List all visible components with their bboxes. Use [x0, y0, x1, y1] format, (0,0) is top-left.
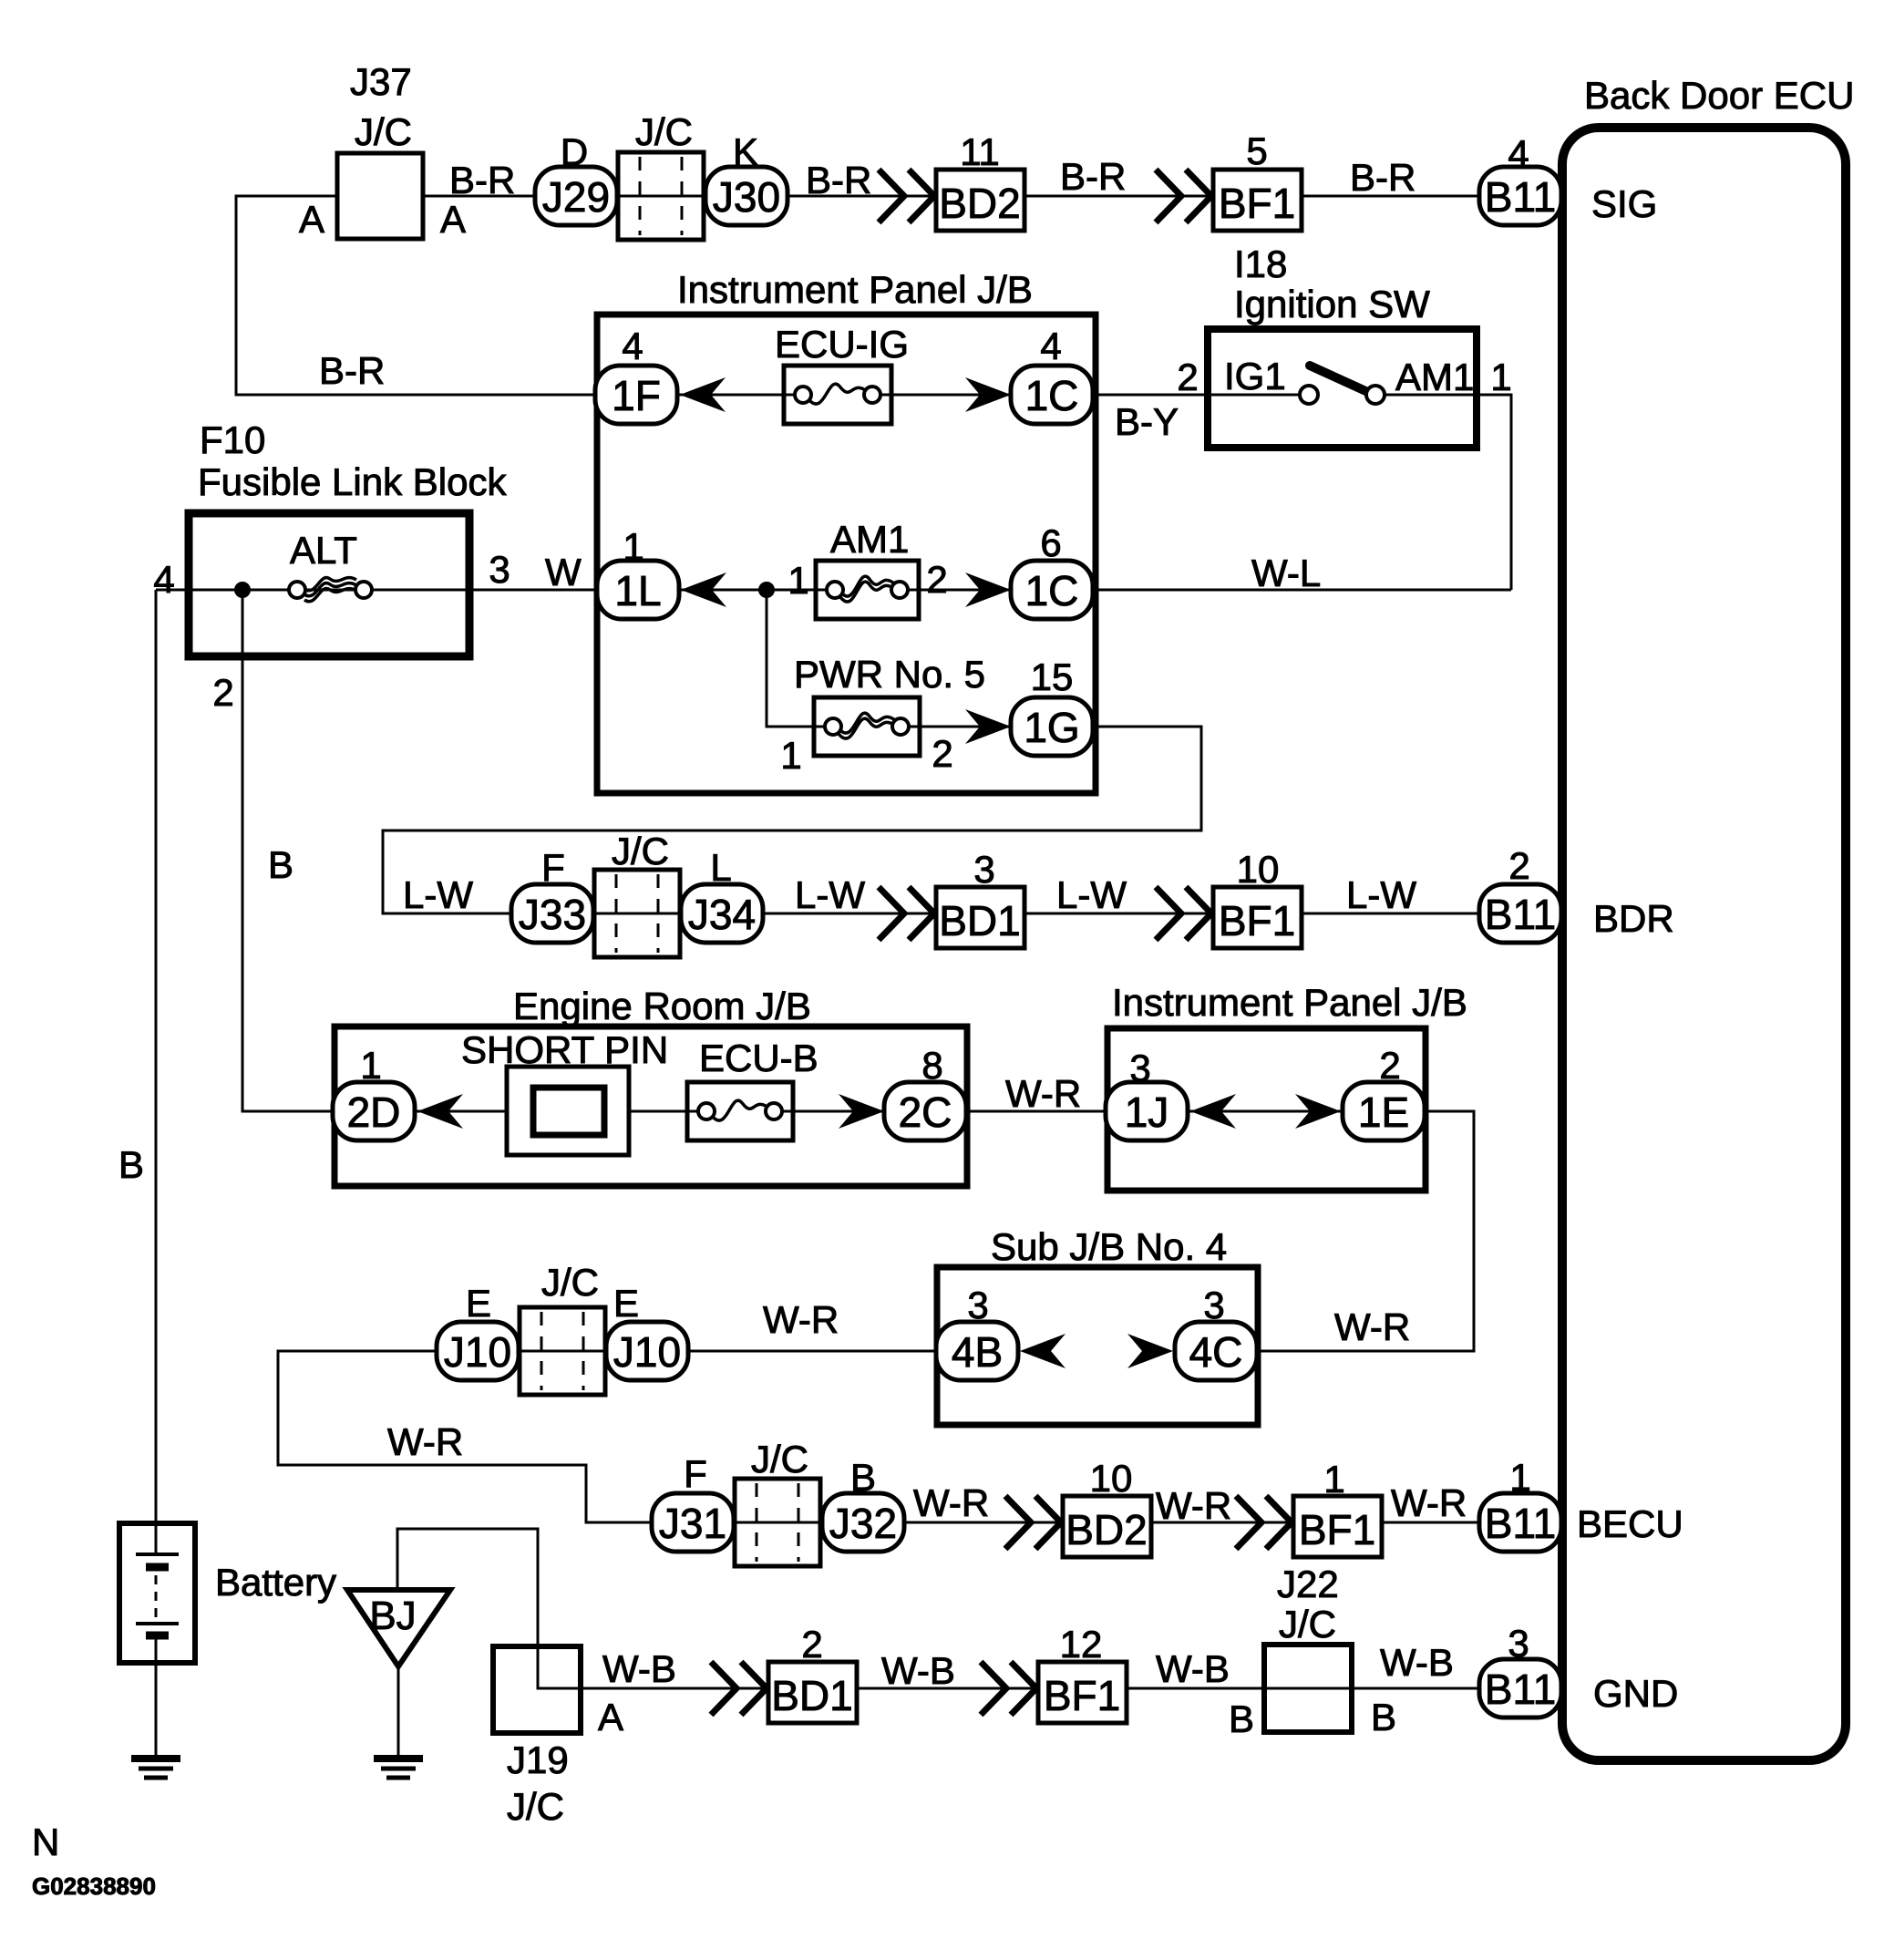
svg-text:F: F	[684, 1452, 707, 1495]
pin label F	[541, 846, 565, 889]
pin 1 of PWR fuse	[780, 734, 801, 777]
label J/C of J29/J30	[635, 110, 693, 153]
svg-text:B11: B11	[1485, 173, 1556, 221]
junction connector J/C box J10	[520, 1307, 605, 1395]
svg-text:1: 1	[1490, 356, 1511, 398]
svg-text:W-R: W-R	[763, 1298, 839, 1341]
battery plate long top	[136, 1553, 179, 1556]
wire label W-R	[1334, 1305, 1410, 1348]
connector 2C	[884, 1082, 966, 1140]
wire B from F10 pin 2 to 2D	[242, 590, 335, 1111]
fuse ECU-IG	[784, 366, 891, 424]
svg-text:2: 2	[1508, 844, 1529, 887]
pin name BECU	[1577, 1502, 1683, 1545]
svg-text:W-R: W-R	[1156, 1484, 1231, 1527]
svg-text:I18: I18	[1234, 242, 1287, 285]
svg-text:B: B	[268, 843, 293, 886]
fuse ECU-B	[687, 1082, 793, 1140]
svg-text:E: E	[613, 1282, 639, 1325]
label J/C of J33/J34	[612, 830, 669, 872]
label J/C of J10	[541, 1261, 599, 1304]
svg-text:3: 3	[1129, 1047, 1150, 1089]
connector B11 pin 4 SIG	[1479, 167, 1561, 225]
svg-text:2: 2	[212, 671, 233, 714]
wire label W	[545, 551, 582, 593]
svg-text:15: 15	[1031, 655, 1074, 698]
svg-text:2: 2	[926, 558, 947, 601]
junction connector J/C box J31/J32	[735, 1479, 820, 1566]
junction connector J22 box	[1264, 1645, 1352, 1732]
label Engine Room J/B	[513, 985, 811, 1027]
wire B battery feed	[155, 590, 158, 1554]
pin label B right	[1371, 1696, 1396, 1738]
wire battery positive to BJ and J19	[397, 1529, 581, 1688]
instrument panel J/B box 2	[1107, 1028, 1426, 1191]
svg-text:B: B	[118, 1143, 144, 1186]
connector 4B	[936, 1322, 1018, 1380]
pin 1	[360, 1044, 381, 1087]
pin 1	[1509, 1456, 1530, 1499]
arrow into 4C	[1127, 1334, 1173, 1368]
wire label B-R	[1060, 155, 1126, 198]
pin 4 of F10	[153, 558, 174, 601]
svg-text:J32: J32	[829, 1500, 897, 1547]
svg-text:J/C: J/C	[355, 110, 412, 153]
inline connector BD2	[936, 170, 1024, 231]
wire label W-B	[1156, 1647, 1230, 1690]
pin 2	[1508, 844, 1529, 887]
wire W-R 4B to J10	[686, 1350, 938, 1353]
wire label L-W	[403, 873, 473, 916]
wire ignition AM1 to pin 1	[1382, 395, 1511, 590]
svg-text:6: 6	[1040, 521, 1061, 564]
connector B11 pin 3 GND	[1479, 1659, 1561, 1718]
svg-text:Instrument Panel J/B: Instrument Panel J/B	[1112, 981, 1467, 1024]
battery box	[119, 1523, 195, 1663]
pin 1	[623, 525, 643, 568]
connector 1G	[1011, 697, 1093, 756]
label AM1	[1395, 356, 1474, 398]
svg-text:Fusible Link Block: Fusible Link Block	[198, 460, 507, 503]
wire label B-R	[806, 159, 871, 201]
arrow into 4B	[1020, 1334, 1066, 1368]
pin 3	[1129, 1047, 1150, 1089]
svg-text:W-R: W-R	[1391, 1481, 1467, 1524]
label Battery	[215, 1561, 336, 1604]
label Instrument Panel J/B 2	[1112, 981, 1467, 1024]
wire branch to PWR No.5 fuse	[767, 590, 814, 727]
wire B-Y 1C to ignition IG1	[1091, 394, 1303, 397]
connector J33	[511, 884, 593, 943]
wire W-R 2C to 1J	[964, 1110, 1109, 1113]
junction connector J/C box J33/J34	[594, 870, 680, 957]
pin 2	[1177, 356, 1198, 398]
wire W-L 1C to ignition SW	[1091, 589, 1511, 592]
fusible link ALT	[289, 578, 372, 602]
svg-text:W-R: W-R	[1005, 1072, 1081, 1115]
svg-text:3: 3	[967, 1284, 988, 1326]
wire label B	[268, 843, 293, 886]
svg-text:N: N	[32, 1821, 59, 1863]
wire label W-L	[1251, 552, 1321, 594]
svg-text:BD2: BD2	[1066, 1506, 1147, 1553]
connector 4C	[1175, 1322, 1257, 1380]
pin name GND	[1593, 1672, 1678, 1715]
svg-text:J/C: J/C	[751, 1438, 808, 1480]
pin label L	[710, 846, 731, 889]
svg-text:B-R: B-R	[449, 159, 515, 201]
pin 1	[1490, 356, 1511, 398]
junction connector J/C box J29/J30	[618, 152, 704, 240]
label Ignition SW	[1234, 283, 1430, 325]
connector J31	[652, 1493, 734, 1552]
label J/C of J37	[355, 110, 412, 153]
inline connector arrows to BF1	[1156, 170, 1211, 222]
svg-text:GND: GND	[1593, 1672, 1678, 1715]
svg-text:Ignition SW: Ignition SW	[1234, 283, 1430, 325]
svg-text:2: 2	[1379, 1044, 1400, 1087]
svg-text:W-B: W-B	[602, 1647, 676, 1690]
svg-text:1C: 1C	[1025, 567, 1079, 614]
connector 1C row2	[1011, 561, 1093, 619]
svg-text:L-W: L-W	[1346, 873, 1416, 916]
inline connector BD1	[936, 887, 1024, 948]
svg-text:1J: 1J	[1125, 1088, 1169, 1136]
svg-text:J31: J31	[659, 1500, 726, 1547]
wire 2D to SHORT PIN	[413, 1110, 507, 1113]
svg-text:1L: 1L	[614, 567, 661, 614]
svg-text:BECU: BECU	[1577, 1502, 1683, 1545]
svg-text:B11: B11	[1485, 1500, 1556, 1547]
connector J34	[681, 884, 763, 943]
note N	[32, 1821, 59, 1863]
inline connector arrows to BF1 GND	[981, 1662, 1036, 1715]
pin label E left	[466, 1282, 491, 1325]
svg-text:4: 4	[622, 325, 643, 367]
label F10	[200, 418, 265, 461]
wire W-R BF1 to B11 BECU	[1381, 1522, 1481, 1524]
svg-text:BF1: BF1	[1299, 1506, 1375, 1553]
svg-text:1F: 1F	[612, 372, 661, 419]
svg-text:2: 2	[932, 732, 952, 775]
svg-text:B: B	[1371, 1696, 1396, 1738]
svg-text:E: E	[466, 1282, 491, 1325]
wire 1J to 1E	[1186, 1110, 1344, 1113]
inline connector BF1 BECU	[1293, 1496, 1382, 1557]
pin 1	[1323, 1458, 1344, 1501]
ignition switch I18 box	[1208, 329, 1477, 448]
svg-text:F10: F10	[200, 418, 265, 461]
pin 3	[1203, 1284, 1224, 1326]
wire W-B BD1 to BF1	[857, 1687, 1038, 1690]
wire B-R J30 to BD2	[786, 195, 936, 198]
arrow into 1J	[1190, 1094, 1236, 1129]
pin label D	[561, 130, 588, 173]
svg-text:PWR No. 5: PWR No. 5	[794, 653, 985, 696]
wire BJ to ground	[397, 1665, 400, 1759]
svg-text:10: 10	[1237, 848, 1280, 891]
svg-text:2C: 2C	[899, 1088, 952, 1136]
figure number G02838890	[32, 1872, 156, 1900]
connector 1C	[1011, 366, 1093, 424]
svg-text:2: 2	[801, 1623, 822, 1666]
svg-text:11: 11	[960, 130, 1000, 173]
pin 4	[622, 325, 643, 367]
label SHORT PIN	[461, 1028, 668, 1071]
instrument panel J/B box	[597, 315, 1096, 793]
wire B-R BD2 to BF1	[1024, 195, 1213, 198]
label Sub J/B No. 4	[991, 1225, 1227, 1268]
svg-text:3: 3	[1508, 1622, 1529, 1665]
connector 1F	[595, 366, 677, 424]
wire B-R from J37 pin A to 1F	[236, 196, 597, 395]
wire battery to ground	[155, 1635, 158, 1759]
pin label F	[684, 1452, 707, 1495]
pin 8	[921, 1044, 942, 1087]
pin label E right	[613, 1282, 639, 1325]
svg-text:BDR: BDR	[1593, 897, 1674, 940]
pin 4	[1040, 325, 1061, 367]
svg-text:1E: 1E	[1358, 1088, 1409, 1136]
svg-text:BJ: BJ	[369, 1594, 416, 1638]
svg-text:J19: J19	[507, 1738, 569, 1781]
svg-text:SHORT PIN: SHORT PIN	[461, 1028, 668, 1071]
wire label W-R	[387, 1420, 463, 1463]
svg-text:1: 1	[780, 734, 801, 777]
body junction BJ triangle	[347, 1590, 450, 1666]
arrow into 1G	[965, 709, 1011, 744]
pin 10	[1237, 848, 1280, 891]
label PWR No. 5	[794, 653, 985, 696]
svg-text:IG1: IG1	[1224, 355, 1286, 397]
wire ECU-B fuse to 2C	[793, 1110, 886, 1113]
svg-text:J30: J30	[713, 173, 780, 221]
inline connector arrows to BD1	[879, 887, 934, 940]
pin name BDR	[1593, 897, 1674, 940]
junction connector J19 box	[493, 1646, 581, 1733]
ground battery	[131, 1759, 180, 1778]
svg-text:ECU-B: ECU-B	[699, 1037, 818, 1079]
svg-text:SIG: SIG	[1591, 182, 1657, 225]
svg-text:L-W: L-W	[1056, 873, 1127, 916]
wire label W-B	[602, 1647, 676, 1690]
connector J30	[705, 167, 788, 225]
battery plate short bottom	[146, 1632, 169, 1640]
connector J10 left	[437, 1322, 519, 1380]
label J19	[507, 1738, 569, 1781]
label J/C of J19	[507, 1785, 564, 1828]
arrow into 1E	[1295, 1094, 1341, 1129]
pin 2 of PWR fuse	[932, 732, 952, 775]
connector J29	[535, 167, 617, 225]
svg-text:1: 1	[360, 1044, 381, 1087]
junction dot AM1 branch	[758, 582, 775, 598]
wire W-B BF1 to J22 to B11 GND	[1127, 1687, 1481, 1690]
wire through J/C J33/J34	[592, 913, 682, 915]
svg-text:8: 8	[921, 1044, 942, 1087]
pin 2	[801, 1623, 822, 1666]
wire label L-W	[1346, 873, 1416, 916]
svg-text:B11: B11	[1485, 1666, 1556, 1713]
wire label B-R	[1350, 156, 1416, 199]
svg-text:L-W: L-W	[795, 873, 865, 916]
sub J/B No.4 box	[937, 1267, 1258, 1425]
svg-text:G02838890: G02838890	[32, 1872, 156, 1900]
svg-text:W-B: W-B	[1380, 1641, 1454, 1684]
svg-text:1G: 1G	[1024, 704, 1079, 751]
wire label W-B	[881, 1649, 955, 1692]
svg-text:1C: 1C	[1025, 372, 1079, 419]
svg-text:3: 3	[1203, 1284, 1224, 1326]
svg-text:10: 10	[1090, 1457, 1133, 1500]
svg-text:F: F	[541, 846, 565, 889]
svg-text:J/C: J/C	[541, 1261, 599, 1304]
pin 4	[1508, 132, 1529, 175]
svg-text:J29: J29	[542, 173, 610, 221]
svg-text:AM1: AM1	[1395, 356, 1474, 398]
pin 10	[1090, 1457, 1133, 1500]
inline connector arrows to BD1 GND	[711, 1662, 767, 1715]
pin label A	[598, 1696, 623, 1738]
label ECU-IG	[775, 323, 909, 366]
svg-text:ECU-IG: ECU-IG	[775, 323, 909, 366]
wire through J/C J10	[517, 1350, 608, 1353]
svg-text:3: 3	[489, 548, 510, 591]
pin 3	[1508, 1622, 1529, 1665]
svg-text:J/C: J/C	[507, 1785, 564, 1828]
wire label W-R	[1005, 1072, 1081, 1115]
wire B-R J37 to J29	[423, 195, 537, 198]
arrow into 1C	[965, 573, 1011, 607]
wire AM1 fuse to 1C	[919, 589, 1013, 592]
connector J32	[822, 1493, 904, 1552]
wire label B left	[118, 1143, 144, 1186]
wire label L-W	[1056, 873, 1127, 916]
wire W-R BD2 to BF1	[1151, 1522, 1293, 1524]
connector 1L	[597, 561, 679, 619]
pin label B left	[1229, 1697, 1254, 1740]
svg-text:J22: J22	[1277, 1563, 1339, 1605]
engine room J/B box	[335, 1026, 967, 1186]
pin label K	[733, 130, 758, 173]
svg-text:2: 2	[1177, 356, 1198, 398]
label 2 below F10	[212, 671, 233, 714]
wire 1F to ECU-IG fuse	[675, 394, 784, 397]
svg-text:J/C: J/C	[635, 110, 693, 153]
svg-text:B-R: B-R	[1060, 155, 1126, 198]
pin 3	[489, 548, 510, 591]
pin 15	[1031, 655, 1074, 698]
wire label W-R	[1156, 1484, 1231, 1527]
svg-text:W-R: W-R	[387, 1420, 463, 1463]
svg-text:1: 1	[623, 525, 643, 568]
connector J10 right	[606, 1322, 688, 1380]
inline connector BF1 BDR	[1213, 887, 1302, 948]
inline connector BF1 GND	[1038, 1662, 1127, 1723]
svg-text:BF1: BF1	[1219, 180, 1295, 227]
wire PWR fuse to 1G	[920, 726, 1013, 728]
pin 11	[960, 130, 1000, 173]
svg-text:A: A	[299, 198, 324, 241]
svg-text:BD1: BD1	[939, 897, 1020, 944]
svg-text:W-R: W-R	[913, 1481, 989, 1524]
svg-text:B11: B11	[1485, 891, 1556, 938]
svg-text:4C: 4C	[1189, 1328, 1243, 1376]
svg-text:Battery: Battery	[215, 1561, 336, 1604]
svg-text:W-B: W-B	[1156, 1647, 1230, 1690]
connector 1J	[1106, 1082, 1188, 1140]
ignition switch contacts	[1208, 366, 1477, 404]
junction connector J37 box	[337, 153, 423, 239]
svg-text:J10: J10	[613, 1328, 681, 1376]
svg-text:W-R: W-R	[1334, 1305, 1410, 1348]
arrow into 2C	[839, 1094, 884, 1129]
svg-text:B: B	[850, 1456, 876, 1499]
connector B11 pin 2 BDR	[1479, 884, 1561, 943]
svg-text:4: 4	[1508, 132, 1529, 175]
ground BJ	[374, 1759, 423, 1778]
label BJ	[369, 1594, 416, 1638]
label IG1	[1224, 355, 1286, 397]
svg-text:L-W: L-W	[403, 873, 473, 916]
svg-text:J34: J34	[688, 891, 756, 938]
wire ECU-IG fuse to 1C	[891, 394, 1013, 397]
inline connector BF1	[1213, 170, 1302, 231]
svg-text:12: 12	[1060, 1623, 1103, 1666]
svg-text:Back Door ECU: Back Door ECU	[1584, 74, 1854, 117]
label I18	[1234, 242, 1287, 285]
inline connector arrows to BD2 BECU	[1005, 1496, 1061, 1549]
svg-text:B-Y: B-Y	[1115, 400, 1179, 443]
svg-text:AM1: AM1	[830, 518, 909, 561]
svg-text:BF1: BF1	[1044, 1672, 1120, 1719]
pin 1 of AM1 fuse	[788, 559, 808, 602]
junction dot F10	[234, 582, 251, 598]
pin 2	[1379, 1044, 1400, 1087]
wire W-R 1E to 4C	[1259, 1111, 1474, 1351]
wire 1L to AM1 fuse	[678, 589, 816, 592]
svg-text:4B: 4B	[952, 1328, 1003, 1376]
pin 5	[1246, 129, 1267, 172]
svg-text:B-R: B-R	[319, 349, 385, 392]
arrow into 2D	[417, 1094, 463, 1129]
arrow into 1F	[680, 377, 726, 412]
svg-text:1: 1	[788, 559, 808, 602]
svg-text:J33: J33	[519, 891, 586, 938]
label J37	[350, 60, 412, 103]
inline connector BD2 BECU	[1063, 1496, 1151, 1557]
wire through J/C J31/J32	[733, 1522, 823, 1524]
arrow into 1C	[965, 377, 1011, 412]
fusible link block F10 box	[189, 513, 469, 656]
battery dashed link	[155, 1575, 158, 1619]
fuse PWR No.5	[814, 697, 920, 756]
svg-text:B: B	[1229, 1697, 1254, 1740]
pin 3	[973, 848, 994, 891]
svg-text:Sub J/B No. 4: Sub J/B No. 4	[991, 1225, 1227, 1268]
svg-text:BD1: BD1	[771, 1672, 852, 1719]
svg-text:J/C: J/C	[612, 830, 669, 872]
wire label B-R	[319, 349, 385, 392]
wire label L-W	[795, 873, 865, 916]
battery plate short top	[146, 1563, 169, 1572]
label Back Door ECU	[1584, 74, 1854, 117]
svg-text:BF1: BF1	[1219, 897, 1295, 944]
svg-text:Instrument Panel J/B: Instrument Panel J/B	[677, 268, 1033, 311]
pin 3	[967, 1284, 988, 1326]
connector 1E	[1343, 1082, 1425, 1140]
wire W-B J19 to BD1	[581, 1687, 768, 1690]
